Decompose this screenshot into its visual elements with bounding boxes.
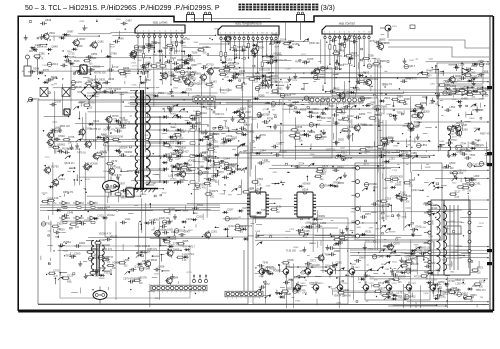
svg-text:3: 3 (195, 103, 196, 105)
svg-text:Z385: Z385 (39, 51, 45, 55)
svg-text:Z916: Z916 (384, 96, 390, 100)
svg-text:D379: D379 (175, 151, 182, 155)
svg-text:VD758 1K: VD758 1K (90, 128, 101, 131)
svg-text:T812: T812 (46, 222, 52, 226)
svg-text:Z904: Z904 (351, 211, 357, 213)
svg-text:(3/3): (3/3) (321, 5, 335, 12)
svg-text:L854: L854 (449, 105, 455, 109)
svg-text:VD606: VD606 (90, 161, 98, 165)
svg-text:5: 5 (344, 32, 345, 34)
svg-text:L830: L830 (191, 70, 197, 74)
svg-text:C677 0.1: C677 0.1 (326, 149, 336, 152)
svg-text:VD793: VD793 (51, 165, 59, 169)
svg-text:Q566: Q566 (401, 216, 407, 218)
svg-text:VD270: VD270 (230, 216, 238, 220)
svg-text:R750: R750 (112, 114, 119, 118)
svg-text:VD651: VD651 (188, 158, 196, 162)
svg-text:L607: L607 (288, 277, 294, 281)
svg-text:Z275: Z275 (84, 218, 90, 222)
svg-text:Q459: Q459 (91, 52, 98, 56)
svg-text:Z535: Z535 (477, 86, 483, 90)
svg-text:T448: T448 (484, 62, 490, 66)
svg-text:12: 12 (322, 104, 324, 106)
svg-text:R687 47u: R687 47u (480, 133, 491, 136)
svg-text:2.2K: 2.2K (344, 240, 349, 242)
svg-text:Z910: Z910 (57, 222, 63, 226)
svg-text:Z341: Z341 (415, 225, 421, 229)
svg-text:R425: R425 (385, 216, 391, 218)
svg-text:Z657: Z657 (365, 212, 371, 216)
svg-text:R871: R871 (313, 107, 320, 111)
svg-text:Q924: Q924 (203, 171, 209, 173)
svg-text:Z346: Z346 (108, 77, 114, 81)
svg-text:4: 4 (154, 31, 155, 33)
svg-text:C491: C491 (76, 80, 83, 84)
svg-text:Z136: Z136 (105, 207, 111, 209)
svg-text:D160: D160 (199, 81, 205, 83)
svg-text:Q619 47u: Q619 47u (64, 162, 75, 165)
svg-text:T617: T617 (301, 54, 307, 56)
svg-text:R458: R458 (296, 125, 303, 129)
svg-text:D640: D640 (439, 141, 445, 143)
svg-text:Q818: Q818 (45, 18, 52, 22)
svg-text:L619: L619 (145, 61, 151, 65)
svg-text:VD750: VD750 (133, 276, 141, 280)
svg-text:Q560: Q560 (449, 161, 456, 165)
svg-text:C167: C167 (318, 75, 325, 79)
svg-text:Z916: Z916 (154, 218, 160, 222)
svg-text:L726: L726 (187, 76, 193, 80)
svg-text:Q581: Q581 (436, 269, 442, 271)
svg-text:L192 47u: L192 47u (455, 282, 466, 285)
svg-text:L543: L543 (354, 88, 360, 92)
svg-text:D334: D334 (42, 47, 48, 49)
svg-text:Q687: Q687 (365, 96, 372, 100)
svg-text:D937: D937 (409, 60, 415, 62)
svg-text:R847: R847 (79, 37, 86, 41)
svg-text:D270 2.2K: D270 2.2K (259, 68, 271, 71)
svg-text:Q841: Q841 (93, 119, 100, 123)
svg-text:T242: T242 (450, 221, 456, 223)
svg-text:Q719: Q719 (187, 272, 193, 274)
svg-text:1: 1 (220, 33, 221, 35)
svg-text:R140: R140 (138, 159, 144, 161)
svg-text:C331: C331 (132, 85, 138, 87)
svg-text:R980: R980 (257, 40, 264, 44)
svg-text:VD472: VD472 (301, 226, 309, 230)
svg-text:V740: V740 (343, 283, 349, 285)
svg-text:10: 10 (189, 292, 191, 294)
svg-text:Z779 4.7K: Z779 4.7K (87, 79, 98, 82)
svg-text:VD324: VD324 (120, 146, 128, 150)
svg-text:L950: L950 (474, 174, 480, 178)
svg-text:L342: L342 (470, 70, 476, 74)
svg-text:L642: L642 (55, 126, 61, 130)
svg-text:D424: D424 (446, 265, 452, 267)
svg-text:Q950: Q950 (438, 280, 445, 284)
svg-text:Q754: Q754 (405, 268, 412, 272)
svg-text:L911: L911 (125, 217, 131, 221)
svg-text:Z406: Z406 (266, 185, 272, 187)
svg-text:C918: C918 (312, 111, 319, 115)
svg-text:T952 47u: T952 47u (476, 289, 487, 292)
svg-text:R158: R158 (62, 146, 69, 150)
svg-text:D961: D961 (79, 241, 86, 245)
svg-text:Q864: Q864 (470, 293, 477, 297)
svg-text:Z621: Z621 (457, 80, 463, 82)
svg-text:VD339: VD339 (344, 233, 352, 237)
svg-text:Q139: Q139 (55, 99, 62, 103)
svg-text:Z473: Z473 (154, 273, 160, 275)
svg-text:C622: C622 (98, 214, 105, 218)
svg-text:7: 7 (250, 298, 251, 300)
svg-text:50 – 3. TCL – HiD291S. P./HiD2: 50 – 3. TCL – HiD291S. P./HiD296S .P./Hi… (25, 5, 220, 12)
svg-text:9: 9 (257, 33, 258, 35)
svg-text:T164: T164 (165, 221, 171, 225)
svg-text:L699: L699 (159, 264, 165, 268)
svg-text:Z162: Z162 (400, 191, 406, 195)
svg-text:C638: C638 (287, 258, 294, 262)
svg-text:10: 10 (368, 32, 370, 34)
svg-text:C882: C882 (151, 183, 157, 185)
svg-text:2.2K: 2.2K (455, 197, 460, 199)
svg-text:Z470: Z470 (111, 159, 117, 163)
svg-text:VD171: VD171 (268, 77, 276, 81)
svg-text:4.7K: 4.7K (351, 58, 356, 60)
svg-text:D277: D277 (243, 206, 250, 210)
svg-text:D785: D785 (307, 57, 314, 61)
svg-text:VD358: VD358 (262, 112, 270, 116)
svg-text:D454: D454 (320, 66, 327, 70)
svg-text:Q975: Q975 (387, 114, 393, 116)
svg-text:C258: C258 (302, 293, 308, 295)
svg-text:1: 1 (167, 292, 168, 294)
svg-text:11: 11 (266, 33, 268, 35)
svg-text:2: 2 (329, 32, 330, 34)
svg-text:C581: C581 (276, 141, 283, 145)
svg-text:4.7K: 4.7K (233, 69, 238, 71)
svg-text:D782 4.7K: D782 4.7K (406, 78, 418, 81)
svg-text:D675: D675 (479, 110, 485, 112)
svg-text:T398: T398 (61, 205, 67, 209)
svg-text:V201: V201 (392, 26, 398, 28)
svg-text:7: 7 (203, 103, 204, 105)
svg-text:Q146 0.1: Q146 0.1 (411, 189, 422, 192)
svg-text:Z173: Z173 (227, 163, 233, 167)
svg-text:Z315: Z315 (153, 55, 159, 57)
svg-text:T355: T355 (224, 70, 230, 74)
svg-text:Z546: Z546 (74, 59, 80, 63)
svg-text:D142: D142 (201, 111, 208, 115)
svg-text:12: 12 (199, 103, 201, 105)
svg-text:R986: R986 (351, 221, 357, 223)
svg-text:2.2K: 2.2K (287, 294, 292, 296)
svg-text:Q705: Q705 (68, 135, 75, 139)
svg-text:1: 1 (324, 32, 325, 34)
svg-text:D746: D746 (378, 281, 385, 285)
svg-text:T342: T342 (452, 182, 458, 184)
svg-text:1K: 1K (241, 89, 244, 91)
svg-text:R334: R334 (171, 41, 178, 45)
svg-text:2.2K: 2.2K (182, 260, 187, 262)
svg-text:R734 4.7K: R734 4.7K (370, 40, 382, 43)
svg-text:Z412: Z412 (52, 62, 58, 66)
svg-text:C616: C616 (239, 69, 246, 73)
svg-text:Z172: Z172 (260, 86, 266, 90)
svg-text:L646: L646 (118, 36, 124, 40)
svg-text:L858 103: L858 103 (267, 61, 278, 64)
svg-text:Q505 100: Q505 100 (309, 42, 320, 45)
svg-text:T384: T384 (172, 275, 178, 279)
svg-text:7: 7 (158, 292, 159, 294)
svg-text:T296: T296 (190, 118, 196, 122)
svg-text:C260: C260 (196, 215, 203, 219)
svg-text:L545: L545 (370, 101, 376, 105)
svg-text:Z691: Z691 (49, 31, 55, 35)
svg-text:Z880: Z880 (187, 57, 193, 61)
svg-text:D247: D247 (442, 259, 448, 261)
svg-text:C165: C165 (219, 194, 225, 196)
svg-text:D872: D872 (383, 188, 389, 190)
svg-text:T725: T725 (119, 116, 125, 120)
svg-text:VD934: VD934 (139, 167, 147, 171)
svg-text:D514: D514 (341, 106, 348, 110)
svg-text:C687: C687 (126, 186, 133, 190)
svg-text:D187: D187 (348, 102, 355, 106)
svg-text:T359: T359 (203, 135, 209, 139)
svg-text:9: 9 (199, 292, 200, 294)
svg-text:VD887: VD887 (266, 71, 274, 75)
svg-text:Q485: Q485 (336, 302, 342, 304)
svg-text:T951 471: T951 471 (102, 248, 113, 251)
svg-text:D659: D659 (282, 104, 288, 106)
svg-text:L823 0.1: L823 0.1 (215, 113, 225, 116)
svg-text:R518: R518 (168, 206, 175, 210)
svg-text:VD703: VD703 (92, 247, 100, 251)
svg-text:C657: C657 (227, 207, 234, 211)
svg-text:JK: JK (98, 293, 101, 297)
svg-text:VD482 47u: VD482 47u (103, 128, 116, 131)
svg-text:T929: T929 (367, 112, 373, 114)
svg-text:T559: T559 (59, 227, 65, 231)
svg-text:7: 7 (248, 33, 249, 35)
svg-text:N201 TDA9383PS/N2/3I: N201 TDA9383PS/N2/3I (235, 23, 261, 26)
svg-text:L658 47u: L658 47u (147, 248, 158, 251)
svg-text:R951: R951 (277, 86, 284, 90)
svg-text:1: 1 (162, 292, 163, 294)
svg-text:D408: D408 (173, 248, 180, 252)
svg-text:C729: C729 (186, 87, 193, 91)
svg-text:L175: L175 (397, 290, 403, 294)
svg-text:L951: L951 (475, 143, 481, 147)
svg-text:R736: R736 (267, 117, 274, 121)
svg-text:Q689: Q689 (314, 122, 321, 126)
svg-text:VD679: VD679 (398, 274, 406, 278)
svg-text:T313: T313 (392, 170, 398, 172)
svg-text:R730: R730 (378, 113, 384, 115)
svg-text:R195: R195 (293, 42, 300, 46)
svg-text:D216: D216 (297, 284, 304, 288)
svg-text:VD213: VD213 (168, 237, 176, 241)
svg-text:R633: R633 (351, 264, 357, 266)
svg-text:VD424 103: VD424 103 (334, 295, 347, 298)
svg-text:Q202: Q202 (472, 163, 479, 167)
svg-text:4: 4 (176, 292, 177, 294)
svg-text:R775: R775 (43, 68, 50, 72)
svg-text:R353: R353 (300, 107, 307, 111)
svg-text:3: 3 (148, 31, 149, 33)
svg-text:VD734: VD734 (406, 261, 414, 265)
svg-text:R979: R979 (33, 97, 40, 101)
svg-text:T881: T881 (53, 182, 59, 186)
svg-text:VD945: VD945 (379, 104, 387, 108)
svg-text:5: 5 (239, 33, 240, 35)
svg-text:L711: L711 (223, 125, 229, 129)
svg-text:R466: R466 (426, 69, 433, 73)
svg-text:VD710: VD710 (206, 62, 214, 66)
svg-text:D652: D652 (392, 262, 398, 264)
svg-text:Q282: Q282 (69, 55, 76, 59)
svg-text:Q966: Q966 (338, 49, 345, 53)
svg-text:C833: C833 (212, 139, 219, 143)
svg-text:D985: D985 (295, 301, 301, 303)
svg-text:C402: C402 (202, 150, 209, 154)
svg-text:T258: T258 (368, 54, 374, 58)
svg-text:T812: T812 (207, 154, 213, 158)
svg-text:10K: 10K (299, 141, 304, 143)
svg-text:4: 4 (339, 32, 340, 34)
svg-text:R801: R801 (398, 298, 404, 300)
svg-text:10: 10 (261, 33, 263, 35)
svg-text:D786: D786 (111, 52, 118, 56)
svg-text:Z797: Z797 (104, 190, 110, 192)
svg-text:C697: C697 (274, 47, 280, 49)
svg-text:T349: T349 (262, 261, 268, 265)
svg-text:R542: R542 (151, 258, 158, 262)
svg-text:7: 7 (170, 31, 171, 33)
svg-text:Z883: Z883 (115, 128, 121, 130)
svg-text:T721: T721 (414, 121, 420, 125)
svg-text:T523: T523 (104, 270, 110, 274)
svg-text:L851: L851 (421, 143, 427, 147)
svg-text:11: 11 (316, 104, 318, 106)
svg-text:R309: R309 (423, 110, 430, 114)
svg-text:VD316 330: VD316 330 (220, 89, 233, 92)
svg-text:4: 4 (180, 292, 181, 294)
svg-text:Z562: Z562 (95, 94, 101, 96)
svg-text:Z322: Z322 (168, 157, 174, 159)
svg-text:Z783: Z783 (241, 82, 247, 86)
svg-text:L152: L152 (484, 161, 490, 165)
svg-text:Z427: Z427 (183, 150, 189, 154)
svg-text:R915: R915 (181, 45, 187, 47)
svg-text:Z551: Z551 (273, 172, 279, 174)
svg-text:VD675: VD675 (266, 265, 274, 269)
svg-text:VD506: VD506 (279, 150, 287, 154)
svg-text:R867 330: R867 330 (321, 117, 332, 120)
svg-text:Z861: Z861 (67, 51, 73, 53)
svg-text:R698: R698 (335, 35, 342, 39)
svg-text:Q320 100: Q320 100 (159, 217, 170, 220)
svg-text:R537: R537 (110, 47, 116, 49)
svg-text:L584: L584 (320, 131, 326, 135)
svg-text:C349: C349 (67, 210, 74, 214)
svg-text:T649: T649 (77, 44, 83, 48)
svg-text:R181 10K: R181 10K (137, 252, 148, 255)
svg-text:2: 2 (143, 31, 144, 33)
svg-text:R794: R794 (277, 55, 283, 57)
svg-text:C791: C791 (372, 77, 379, 81)
svg-text:T453: T453 (410, 294, 416, 298)
svg-text:R877: R877 (440, 73, 446, 75)
svg-text:D310: D310 (221, 93, 227, 95)
svg-text:VD806 47u: VD806 47u (383, 245, 396, 248)
svg-text:L441: L441 (91, 139, 97, 143)
svg-text:T319 1N4148: T319 1N4148 (305, 264, 320, 267)
svg-text:D508: D508 (33, 67, 40, 71)
svg-text:L882 47u: L882 47u (196, 186, 207, 189)
svg-text:D358: D358 (79, 102, 85, 104)
svg-text:C398: C398 (406, 144, 412, 146)
svg-text:D558: D558 (143, 135, 149, 137)
svg-text:8: 8 (358, 32, 359, 34)
svg-text:D835: D835 (99, 78, 106, 82)
svg-text:N101 LA7840: N101 LA7840 (153, 22, 168, 25)
svg-text:R172: R172 (364, 164, 370, 166)
svg-text:R193: R193 (85, 179, 91, 181)
svg-text:Z453: Z453 (79, 21, 85, 23)
svg-text:Q189: Q189 (369, 277, 375, 279)
svg-text:9: 9 (363, 32, 364, 34)
svg-text:T817: T817 (308, 109, 314, 111)
svg-text:D168: D168 (255, 231, 261, 233)
svg-text:C279: C279 (429, 242, 435, 244)
svg-text:VD121: VD121 (110, 234, 118, 238)
svg-text:C427: C427 (373, 187, 379, 189)
svg-text:T525: T525 (168, 140, 174, 144)
svg-text:2.2K: 2.2K (92, 255, 97, 257)
svg-text:VD816: VD816 (170, 179, 177, 181)
svg-text:Q340: Q340 (213, 145, 220, 149)
svg-text:VD232: VD232 (109, 134, 117, 138)
svg-text:C959: C959 (421, 227, 427, 229)
svg-text:R908: R908 (334, 180, 341, 184)
svg-text:Z344: Z344 (356, 36, 362, 40)
svg-text:VD291: VD291 (113, 87, 121, 91)
svg-text:2.2K: 2.2K (416, 119, 421, 121)
svg-text:D469: D469 (461, 97, 468, 101)
svg-text:T137: T137 (179, 130, 185, 134)
svg-text:2.2K: 2.2K (254, 82, 259, 84)
svg-text:D987: D987 (67, 30, 74, 34)
svg-text:Z798: Z798 (342, 155, 348, 157)
svg-text:VD713 10K: VD713 10K (425, 204, 438, 207)
svg-text:R384: R384 (429, 103, 435, 105)
svg-text:R285: R285 (258, 94, 265, 98)
svg-text:1: 1 (137, 31, 138, 33)
svg-text:Q810: Q810 (462, 292, 469, 296)
svg-text:Q896: Q896 (456, 149, 463, 153)
svg-text:Z620: Z620 (214, 66, 220, 70)
svg-text:D909: D909 (177, 58, 184, 62)
svg-text:T389: T389 (384, 269, 390, 271)
svg-text:9: 9 (181, 31, 182, 33)
svg-text:2.2K: 2.2K (175, 159, 180, 161)
svg-text:D177: D177 (383, 85, 389, 87)
svg-text:V714: V714 (392, 283, 398, 285)
svg-text:T488: T488 (174, 70, 180, 74)
svg-text:Q669: Q669 (420, 101, 427, 105)
